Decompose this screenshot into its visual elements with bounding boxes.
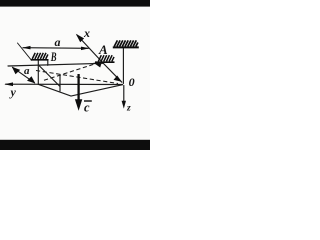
svg-text:y: y: [9, 85, 17, 99]
svg-text:A: A: [98, 42, 108, 57]
svg-text:B: B: [50, 50, 56, 64]
svg-text:c: c: [84, 101, 90, 115]
svg-text:0: 0: [129, 75, 135, 89]
svg-text:z: z: [126, 104, 131, 114]
svg-text:a: a: [24, 65, 30, 77]
svg-text:x: x: [83, 26, 90, 40]
svg-text:a: a: [55, 35, 61, 49]
